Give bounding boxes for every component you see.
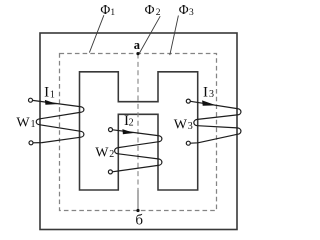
flux mean path dashed rectangle [60,54,217,211]
svg-text:Φ: Φ [100,2,110,17]
W2 arc right 2 [158,159,162,166]
W3 wire turn 4 [190,134,237,143]
leader line Phi3 [170,16,179,56]
W1 wire turn 1 [33,100,80,106]
W2 wire turn 3 [118,154,158,159]
W3 arc right 1 [237,109,241,115]
W3 arc right 2 [237,128,241,134]
svg-text:a: a [134,38,141,52]
leader line Phi1 [89,15,104,52]
W2 terminal 1 [109,128,113,132]
W2 arc left [115,148,119,154]
svg-text:3: 3 [188,121,193,132]
current arrow I1 [45,100,57,105]
W3 terminal 2 [186,141,190,145]
W1 arc right 2 [80,131,84,137]
W2 terminal 2 [108,170,112,174]
W1 wire turn 4 [33,137,80,143]
W3 arc left [194,119,198,125]
svg-text:1: 1 [31,119,36,130]
W3 wire turn 1 [190,101,237,108]
W1 wire turn 2 [40,112,80,118]
svg-text:1: 1 [50,89,55,100]
W1 wire turn 3 [40,125,80,131]
svg-text:1: 1 [110,8,115,18]
W2 wire turn 2 [118,142,158,148]
W1 arc right 1 [80,107,84,113]
svg-text:W: W [16,116,30,131]
W2 wire turn 1 [113,130,158,136]
core outer boundary [40,33,237,230]
W2 arc right 1 [158,136,162,142]
W2 wire turn 4 [112,165,158,171]
current arrow I2 [122,129,134,134]
svg-text:W: W [174,117,188,132]
svg-text:3: 3 [189,8,194,18]
svg-text:I: I [44,85,49,101]
W1 terminal 1 [29,98,33,102]
svg-text:Φ: Φ [145,2,155,17]
node a [136,52,139,55]
svg-text:2: 2 [109,149,114,160]
W1 terminal 2 [29,141,33,145]
leader line Phi2 [139,16,160,53]
svg-text:Φ: Φ [179,2,189,17]
svg-text:W: W [95,146,109,161]
svg-text:б: б [135,212,143,228]
W3 wire turn 3 [198,126,238,128]
svg-text:3: 3 [209,89,214,100]
svg-text:2: 2 [129,118,134,129]
current arrow I3 [202,100,216,105]
W3 wire turn 2 [198,115,238,120]
core window boundary (left window, right window, air gap slot in center limb) [80,72,198,190]
W3 terminal 1 [186,99,190,103]
node b (Cyrillic) [136,209,139,212]
svg-text:I: I [203,84,208,100]
flux path Phi2 center dashed line [137,54,139,191]
W1 arc left [36,119,40,125]
